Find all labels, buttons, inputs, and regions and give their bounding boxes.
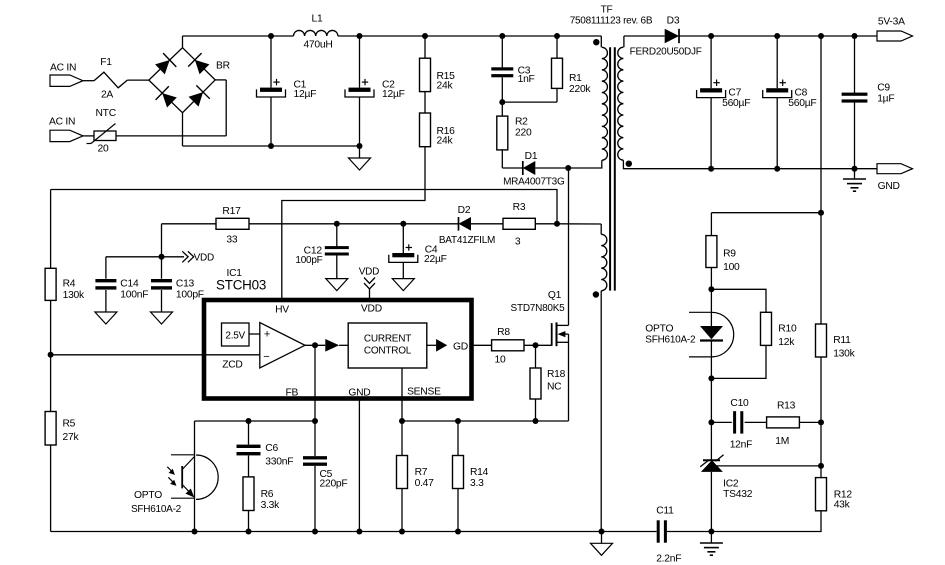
node C8 bottom: [774, 166, 780, 172]
node R9-R11 junction: [818, 210, 824, 216]
svg-text:12k: 12k: [778, 337, 795, 348]
svg-text:560µF: 560µF: [722, 98, 750, 109]
wire R9 branch: [711, 212, 821, 214]
node R14 bottom: [455, 529, 461, 535]
node FB junction: [312, 418, 318, 424]
node R6 bottom: [246, 529, 252, 535]
node R14 top: [455, 418, 461, 424]
svg-text:STD7N80K5: STD7N80K5: [511, 303, 566, 314]
svg-text:D1: D1: [525, 151, 538, 162]
svg-text:D3: D3: [667, 16, 680, 27]
svg-text:20: 20: [98, 144, 109, 155]
svg-text:Q1: Q1: [548, 290, 562, 301]
light arrow 2: [168, 477, 174, 483]
wire FB line: [195, 420, 316, 422]
svg-text:C13: C13: [176, 279, 195, 290]
wire sense line: [402, 420, 569, 422]
node C8 top: [774, 33, 780, 39]
capacitor C3 1nF: [501, 36, 503, 68]
node C2 bottom: [357, 143, 363, 149]
svg-text:F1: F1: [100, 57, 112, 68]
wire VDD net R17 left: [161, 224, 163, 257]
svg-text:FB: FB: [285, 387, 298, 398]
svg-text:R3: R3: [513, 202, 526, 213]
wire FB internal: [314, 345, 316, 421]
ground of C13: [151, 312, 173, 324]
svg-text:1nF: 1nF: [518, 74, 535, 85]
wire top rail y36 bridge to transformer: [183, 35, 294, 37]
wire R13 to feedback vertical: [799, 421, 821, 423]
node R15 top: [422, 33, 428, 39]
svg-text:R13: R13: [777, 401, 796, 412]
ground triangle aux winding: [599, 529, 605, 535]
svg-text:10: 10: [495, 354, 506, 365]
svg-text:R1: R1: [569, 73, 582, 84]
capacitor C13 100pF: [161, 257, 163, 279]
resistor R4 130k: [45, 268, 56, 300]
svg-text:OPTO: OPTO: [645, 324, 673, 335]
svg-text:D2: D2: [458, 205, 471, 216]
wire AC line 1 from connector to fuse: [83, 80, 94, 82]
node TS432 anode ground: [708, 529, 714, 535]
secondary phase dot: [626, 161, 632, 167]
svg-text:130k: 130k: [63, 290, 85, 301]
svg-text:22µF: 22µF: [424, 254, 447, 265]
node R13 right: [818, 419, 824, 425]
resistor R8 10: [492, 340, 524, 351]
node C3-R2-R1: [499, 99, 505, 105]
svg-text:12nF: 12nF: [730, 439, 752, 450]
capacitor C4 22uF: [400, 221, 406, 227]
capacitor C6 330nF: [248, 421, 250, 445]
svg-text:GND: GND: [878, 181, 900, 192]
ground of C4: [392, 279, 414, 291]
svg-text:GND: GND: [348, 387, 370, 398]
svg-text:43k: 43k: [834, 500, 851, 511]
wire R2 bottom to D1: [501, 150, 503, 168]
svg-text:R9: R9: [723, 249, 736, 260]
svg-text:L1: L1: [312, 14, 323, 25]
svg-text:GD: GD: [453, 341, 468, 352]
resistor R13 1M: [767, 417, 800, 428]
resistor R3 3: [503, 218, 535, 229]
node primary bottom / Q1 drain: [565, 165, 571, 171]
svg-text:AC IN: AC IN: [49, 117, 75, 128]
capacitor C7 560uF: [710, 36, 712, 88]
svg-text:R17: R17: [222, 206, 241, 217]
node gate / R18 top: [533, 342, 539, 348]
wire bridge top to +rail: [182, 36, 184, 48]
node 5V feedback top: [818, 33, 824, 39]
auxiliary phase dot: [593, 291, 599, 297]
transistor Q1 STD7N80K5: [551, 323, 553, 346]
resistor R11 130k: [820, 213, 822, 324]
svg-text:SENSE: SENSE: [407, 386, 441, 397]
svg-text:100pF: 100pF: [176, 290, 204, 301]
svg-text:470uH: 470uH: [303, 40, 332, 51]
svg-text:C7: C7: [728, 87, 741, 98]
svg-text:ZCD: ZCD: [222, 359, 242, 370]
wire secondary bottom rail: [630, 168, 913, 170]
svg-text:NC: NC: [547, 382, 562, 393]
wire D1 to primary bottom node: [535, 167, 568, 169]
node R1 top: [554, 33, 560, 39]
earth ground secondary: [854, 169, 856, 179]
ground of C14: [95, 312, 117, 324]
primary phase dot: [593, 39, 599, 45]
svg-text:24k: 24k: [437, 136, 454, 147]
svg-text:1µF: 1µF: [877, 94, 894, 105]
capacitor C10 12nF: [711, 421, 731, 423]
svg-text:12µF: 12µF: [294, 89, 317, 100]
wire negative rail y146: [183, 145, 360, 147]
resistor R9 100: [706, 236, 717, 268]
bridge rectifier BR: [149, 48, 215, 113]
svg-text:NTC: NTC: [96, 108, 117, 119]
wire HV rail y189.5: [51, 190, 557, 224]
arrow to GD: [427, 344, 436, 346]
wire GD to R8: [472, 344, 492, 346]
svg-text:7508111123 rev. 6B: 7508111123 rev. 6B: [570, 16, 653, 27]
svg-text:2.5V: 2.5V: [225, 331, 245, 342]
svg-text:VDD: VDD: [194, 253, 214, 264]
resistor R1 220k: [556, 36, 558, 58]
IC U1 STCH03 outline: [204, 300, 472, 399]
svg-text:C10: C10: [730, 398, 749, 409]
node R3 right: [554, 221, 560, 227]
ground of C12: [326, 279, 348, 291]
node SENSE junction: [399, 418, 405, 424]
node C6 top: [246, 418, 252, 424]
svg-text:C11: C11: [656, 506, 674, 517]
svg-text:100: 100: [723, 262, 740, 273]
wire secondary top rail: [679, 35, 913, 37]
svg-text:MRA4007T3G: MRA4007T3G: [503, 177, 565, 188]
fuse F1 2A: [94, 72, 127, 88]
node C7 bottom: [708, 166, 714, 172]
node C10 left: [708, 419, 714, 425]
wire C3 bottom to R1 bottom: [502, 101, 557, 103]
opto-coupler LED SFH610A-2: [710, 289, 712, 326]
node C3 top: [499, 33, 505, 39]
svg-text:2A: 2A: [101, 90, 113, 101]
resistor R16 24k: [424, 92, 426, 113]
wire D2 to R3: [471, 223, 503, 225]
wire aux node to winding: [557, 223, 601, 225]
node C1 bottom: [268, 143, 274, 149]
svg-text:STCH03: STCH03: [216, 278, 266, 293]
thermistor NTC 20: [94, 131, 116, 141]
svg-text:C6: C6: [265, 443, 278, 454]
svg-text:33: 33: [226, 235, 237, 246]
svg-text:HV: HV: [275, 305, 289, 316]
node C1 top: [268, 33, 274, 39]
svg-text:R7: R7: [415, 467, 428, 478]
wire 5V feedback vertical: [820, 36, 822, 213]
op-amp U1 comparator: [260, 323, 305, 369]
svg-text:IC2: IC2: [723, 478, 739, 489]
transformer core: [609, 47, 611, 290]
node GND pin on rail: [356, 529, 362, 535]
svg-text:220pF: 220pF: [320, 479, 348, 490]
node C9 bottom: [852, 166, 858, 172]
resistor R6 3.3k: [243, 477, 254, 511]
svg-text:CURRENT: CURRENT: [364, 334, 411, 345]
svg-text:CONTROL: CONTROL: [364, 346, 412, 357]
resistor R5 27k: [45, 412, 56, 446]
svg-text:TS432: TS432: [723, 489, 753, 500]
svg-text:BR: BR: [216, 61, 230, 72]
connector AC IN 1: [50, 75, 83, 86]
wire AC line 2 to NTC: [83, 135, 94, 137]
svg-text:2.2nF: 2.2nF: [656, 554, 681, 565]
node R18 bottom: [533, 418, 539, 424]
resistor R10 12k: [711, 289, 766, 312]
current control block: [348, 323, 427, 368]
svg-text:3.3: 3.3: [470, 478, 484, 489]
svg-text:3.3k: 3.3k: [261, 500, 281, 511]
diode D1 MRA4007T3G: [523, 161, 536, 175]
svg-text:24k: 24k: [437, 81, 454, 92]
node REF/R12: [818, 463, 824, 469]
wire opto cathode to C10 node: [710, 378, 712, 422]
wire R9 to opto anode: [710, 268, 712, 290]
capacitor C14 100nF: [105, 257, 107, 279]
resistor R14 3.3: [457, 421, 459, 456]
capacitor C11 2.2nF: [667, 531, 711, 533]
wire left vertical R4-R5: [50, 190, 52, 269]
wire R3 to aux node: [535, 223, 557, 225]
node R7 bottom: [399, 529, 405, 535]
node C7 top: [708, 33, 714, 39]
svg-text:100nF: 100nF: [120, 290, 148, 301]
transformer TF primary winding: [600, 36, 602, 47]
wire R8 to gate: [524, 344, 552, 346]
svg-text:TF: TF: [601, 5, 613, 16]
connector AC IN 2: [50, 130, 83, 141]
svg-text:130k: 130k: [833, 348, 855, 359]
node C5 bottom: [312, 529, 318, 535]
diode D2 BAT41ZFILM: [459, 217, 472, 231]
wire ZCD line: [51, 354, 260, 356]
node C2 top: [357, 33, 363, 39]
svg-text:SFH610A-2: SFH610A-2: [131, 504, 182, 515]
transformer TF auxiliary winding: [600, 224, 602, 234]
node opto cathode / R10 bottom: [708, 375, 714, 381]
svg-text:330nF: 330nF: [265, 456, 293, 467]
wire NTC to bridge right vertex: [116, 135, 226, 137]
svg-text:5V-3A: 5V-3A: [878, 16, 905, 27]
svg-text:FERD20U50DJF: FERD20U50DJF: [630, 47, 702, 58]
svg-text:C8: C8: [795, 87, 808, 98]
node C9 top: [852, 33, 858, 39]
capacitor C1 12uF: [270, 36, 272, 88]
wire op-amp output: [305, 344, 325, 346]
reference 2.5V box: [222, 323, 250, 346]
shunt reference IC2 TS432: [710, 422, 712, 460]
node ZCD tap: [48, 352, 54, 358]
connector 5V-3A output: [877, 31, 913, 41]
svg-text:R5: R5: [63, 419, 76, 430]
earth ground primary-secondary: [710, 532, 712, 544]
svg-text:VDD: VDD: [361, 304, 382, 315]
node opto emitter on rail: [192, 529, 198, 535]
connector GND output: [877, 164, 913, 174]
svg-text:C14: C14: [120, 279, 139, 290]
svg-text:12µF: 12µF: [382, 89, 405, 100]
wire SENSE internal: [401, 368, 403, 421]
transformer TF secondary winding: [623, 36, 625, 47]
inductor L1 470uH: [294, 30, 338, 36]
wire R16 bottom to HV pin: [282, 147, 425, 300]
wire TS432 ref to R12 top: [716, 465, 821, 467]
resistor R2 220: [501, 102, 503, 116]
light arrow 1: [167, 467, 172, 472]
svg-text:VDD: VDD: [359, 267, 379, 278]
svg-text:AC IN: AC IN: [50, 63, 76, 74]
svg-text:R8: R8: [497, 327, 510, 338]
resistor R12 43k: [820, 422, 822, 477]
capacitor C2 12uF: [359, 36, 361, 88]
resistor R17 33: [162, 223, 217, 225]
svg-text:SFH610A-2: SFH610A-2: [645, 335, 696, 346]
svg-text:220k: 220k: [569, 84, 591, 95]
capacitor C8 560uF: [776, 36, 778, 88]
arrow to current control: [325, 339, 339, 352]
svg-text:3: 3: [515, 237, 521, 248]
capacitor C12 100pF: [334, 221, 340, 227]
wire R4 to ZCD node: [50, 300, 52, 411]
svg-text:C9: C9: [877, 82, 890, 93]
ground of C2: [359, 146, 361, 158]
wire bridge bottom to -rail: [182, 113, 184, 146]
capacitor C5 220pF: [314, 421, 316, 456]
svg-text:R11: R11: [833, 335, 851, 346]
wire R5 bottom to ground rail: [50, 445, 52, 532]
node op-amp output: [312, 342, 318, 348]
svg-text:100pF: 100pF: [295, 255, 322, 266]
power flag VDD left: [182, 251, 188, 262]
svg-text:−: −: [263, 351, 269, 363]
node VDD tap: [159, 254, 165, 260]
svg-text:R14: R14: [470, 467, 489, 478]
svg-text:1M: 1M: [775, 436, 789, 447]
diode D3 FERD20U50DJF: [624, 35, 665, 37]
svg-text:R10: R10: [778, 324, 797, 335]
wire GND pin: [358, 399, 360, 532]
node opto anode / R10 top: [708, 286, 714, 292]
capacitor C9 1uF: [854, 36, 856, 94]
svg-text:27k: 27k: [63, 432, 80, 443]
resistor R7 0.47: [401, 421, 403, 456]
svg-text:R4: R4: [63, 278, 76, 289]
svg-text:+: +: [264, 328, 270, 340]
resistor R15 24k: [424, 36, 426, 58]
svg-text:R2: R2: [515, 117, 528, 128]
wire VDD node horizontal: [106, 256, 184, 258]
svg-text:R6: R6: [261, 489, 274, 500]
wire R12 bottom to ground rail: [711, 511, 821, 532]
svg-text:OPTO: OPTO: [134, 490, 162, 501]
svg-text:R18: R18: [547, 369, 566, 380]
svg-text:560µF: 560µF: [788, 98, 816, 109]
wire bottom rail left of C11: [51, 531, 657, 533]
wire fuse to bridge: [127, 79, 149, 81]
svg-text:BAT41ZFILM: BAT41ZFILM: [439, 235, 495, 246]
opto-coupler transistor SFH610A-2: [194, 421, 196, 532]
resistor R18 NC: [535, 345, 537, 368]
svg-text:220: 220: [515, 128, 532, 139]
wire VDD line R17 to D2: [337, 223, 459, 225]
svg-text:0.47: 0.47: [415, 478, 435, 489]
